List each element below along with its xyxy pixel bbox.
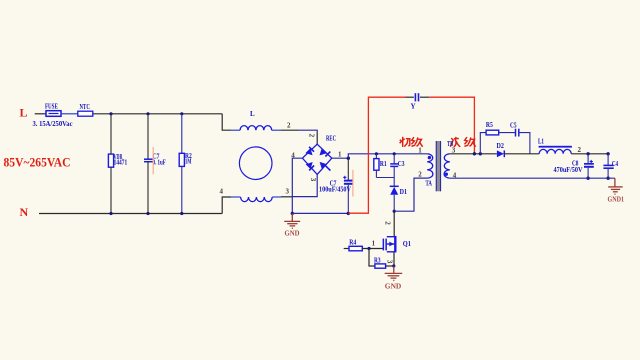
svg-text:L: L xyxy=(250,110,255,118)
wire N rail xyxy=(39,213,222,215)
svg-text:3: 3 xyxy=(286,187,290,195)
svg-text:3: 3 xyxy=(309,178,317,182)
svg-text:R3: R3 xyxy=(374,257,381,265)
junction at C7 bottom xyxy=(347,212,350,215)
junction gate node xyxy=(367,247,370,250)
capacitor C4 xyxy=(603,154,618,178)
capacitor C3 xyxy=(390,154,405,178)
inductor L1 xyxy=(538,138,572,154)
wire GND node to C7 xyxy=(292,212,348,214)
svg-text:GND1: GND1 xyxy=(608,194,625,203)
junction at C7 top xyxy=(347,157,350,160)
transistor Q1 xyxy=(383,236,412,253)
junction on N rail at R2 xyxy=(180,212,183,215)
capacitor C8 470uF/50V xyxy=(554,154,594,178)
pin label 2 Q1 xyxy=(383,221,391,225)
wire snubber right leg xyxy=(519,133,530,154)
junction at C4 top xyxy=(606,152,609,155)
wire R2 upper xyxy=(181,114,183,154)
svg-text:1: 1 xyxy=(372,240,376,248)
net label L xyxy=(20,106,28,120)
wire L input xyxy=(35,113,46,115)
junction on L rail at C7 xyxy=(146,112,149,115)
choke core circle xyxy=(239,147,272,180)
wire choke pin3 xyxy=(272,196,292,198)
wire red to Y cap left xyxy=(348,97,405,213)
svg-text:L: L xyxy=(20,106,28,120)
wire fuse to NTC xyxy=(61,113,78,115)
svg-text:D1: D1 xyxy=(400,188,408,196)
wire drain xyxy=(393,211,395,236)
junction at Y cap return xyxy=(473,152,476,155)
resistor R1 xyxy=(374,154,387,178)
svg-text:GND: GND xyxy=(385,281,402,290)
svg-text:TA: TA xyxy=(426,180,432,188)
svg-text:1: 1 xyxy=(338,151,342,159)
pin label 4 choke xyxy=(220,188,224,196)
junction at C4 bottom xyxy=(606,177,609,180)
transformer TB secondary winding xyxy=(444,140,453,178)
inductor L choke top winding xyxy=(240,110,272,130)
pin label 2 choke xyxy=(287,121,291,129)
diode bottom-right xyxy=(320,162,327,169)
diode top-left xyxy=(305,148,312,155)
svg-text:2: 2 xyxy=(578,146,582,154)
junction on N rail at C7 xyxy=(146,212,149,215)
pin label 4 bridge xyxy=(291,152,295,160)
wire source xyxy=(393,252,395,266)
wire C7 X-cap lower xyxy=(147,162,149,214)
thermistor NTC xyxy=(78,103,93,116)
svg-text:FUSE: FUSE xyxy=(45,103,58,111)
net label N xyxy=(20,205,29,219)
pin label 3 transformer xyxy=(452,146,456,154)
svg-text:C3: C3 xyxy=(398,160,405,168)
svg-text:C5: C5 xyxy=(510,122,517,130)
wire R2 lower xyxy=(181,166,183,213)
transformer core xyxy=(436,141,440,191)
fuse FUSE xyxy=(33,103,73,128)
svg-text:2: 2 xyxy=(308,134,316,138)
wire gate stub xyxy=(344,248,349,250)
wire L1 to output xyxy=(571,153,608,155)
wire D2 to L1 xyxy=(504,153,539,155)
pin label 2 L1 xyxy=(578,146,582,154)
wire VDR upper xyxy=(110,114,112,154)
pin label 2 bridge xyxy=(308,134,316,138)
diode bottom-left xyxy=(306,162,313,169)
wire bridge pin4 xyxy=(292,158,302,213)
svg-text:470uF/50V: 470uF/50V xyxy=(554,166,583,174)
svg-text:14471: 14471 xyxy=(114,159,128,167)
svg-text:Y: Y xyxy=(411,103,416,111)
bridge rectifier REC xyxy=(302,134,336,174)
pin label 1 Q1 xyxy=(372,240,376,248)
inductor L choke bottom winding xyxy=(241,197,273,202)
resistor R3 xyxy=(374,257,386,269)
svg-text:0. 1uF: 0. 1uF xyxy=(153,158,166,166)
svg-text:3: 3 xyxy=(386,260,394,264)
varistor VDR 14471 xyxy=(108,153,127,167)
junction on N rail at VDR xyxy=(109,212,112,215)
svg-text:2: 2 xyxy=(287,121,291,129)
junction source node xyxy=(392,264,395,267)
pin label 4 transformer xyxy=(453,172,457,180)
diode top-right xyxy=(320,148,327,155)
svg-text:R1: R1 xyxy=(380,160,387,168)
svg-text:C4: C4 xyxy=(612,160,619,168)
wire bridge pin3 xyxy=(292,174,317,196)
junction at C8 top xyxy=(586,152,589,155)
pin label 2 transformer xyxy=(418,171,422,179)
wire L rail xyxy=(93,113,222,115)
svg-text:N: N xyxy=(20,205,29,219)
svg-text:R4: R4 xyxy=(349,239,356,247)
wire R4 to gate xyxy=(362,248,383,250)
wire R3 left leg xyxy=(369,249,375,267)
pin label 1 transformer xyxy=(418,146,422,154)
wire secondary pin3 rail xyxy=(450,153,497,155)
wire bridge pin1 xyxy=(332,157,349,159)
resistor R4 xyxy=(349,239,362,251)
svg-text:Q1: Q1 xyxy=(403,240,412,248)
junction on L rail at VDR xyxy=(109,112,112,115)
wire N step up to choke pin4 xyxy=(222,197,240,214)
resistor R2 1M xyxy=(179,152,192,166)
ground GND1 secondary xyxy=(608,178,625,203)
svg-text:2: 2 xyxy=(383,221,391,225)
junction at snubber left xyxy=(479,152,482,155)
junction at GND node xyxy=(291,212,294,215)
svg-text:100uF/450V: 100uF/450V xyxy=(319,186,351,194)
svg-text:GND: GND xyxy=(285,229,301,238)
svg-text:3. 15A/250Vac: 3. 15A/250Vac xyxy=(33,120,73,128)
transformer TA primary winding xyxy=(426,154,433,188)
label 次级 secondary xyxy=(450,137,475,147)
pin label 1 bridge xyxy=(338,151,342,159)
wire snubber bottom bar xyxy=(376,177,394,179)
wire corner to choke pin1 xyxy=(222,114,240,130)
pin label 3 bridge xyxy=(309,178,317,182)
svg-text:1: 1 xyxy=(418,146,422,154)
wire drain node to transformer pin2 xyxy=(394,178,427,211)
capacitor C7 0.1uF xyxy=(144,152,166,166)
svg-text:REC: REC xyxy=(326,134,336,142)
marker line at C7 bulk xyxy=(352,170,354,197)
svg-text:D2: D2 xyxy=(497,142,505,150)
junction primary rail at C3 xyxy=(393,152,396,155)
svg-text:1M: 1M xyxy=(185,158,192,166)
wire red Y cap right to secondary xyxy=(429,97,474,154)
diode D1 xyxy=(390,178,408,212)
capacitor Y xyxy=(406,93,430,110)
junction primary rail at R1 xyxy=(375,152,378,155)
pin label 3 Q1 xyxy=(386,260,394,264)
ground GND primary bridge xyxy=(284,213,300,237)
svg-text:2: 2 xyxy=(418,171,422,179)
wire choke pin2 to bridge xyxy=(272,130,318,144)
marker line at C7 xyxy=(152,147,154,174)
junction drain node xyxy=(393,210,396,213)
svg-text:L1: L1 xyxy=(538,138,544,146)
svg-text:R5: R5 xyxy=(486,121,493,129)
svg-text:85V~265VAC: 85V~265VAC xyxy=(4,154,71,169)
wire R5 to C5 xyxy=(499,132,516,134)
label 初级 primary xyxy=(400,137,423,147)
wire C7 X-cap upper xyxy=(147,114,149,159)
junction on L rail at R2 xyxy=(180,112,183,115)
net label 85V~265VAC xyxy=(4,154,71,169)
wire R3 to source xyxy=(386,265,394,267)
resistor R5 xyxy=(486,121,499,135)
capacitor C7 100uF/450V xyxy=(319,158,353,213)
capacitor C5 xyxy=(510,122,519,137)
wire snubber left leg xyxy=(480,133,486,154)
pin label 3 choke xyxy=(286,187,290,195)
wire secondary bottom rail xyxy=(450,177,615,179)
svg-text:4: 4 xyxy=(220,188,224,196)
svg-text:NTC: NTC xyxy=(80,103,90,111)
ground GND Q1 source xyxy=(385,266,403,290)
wire jog up to primary rail xyxy=(348,154,427,158)
junction at C8 bottom xyxy=(586,177,589,180)
diode D2 xyxy=(497,142,505,157)
wire VDR lower xyxy=(110,167,112,213)
svg-text:3: 3 xyxy=(452,146,456,154)
